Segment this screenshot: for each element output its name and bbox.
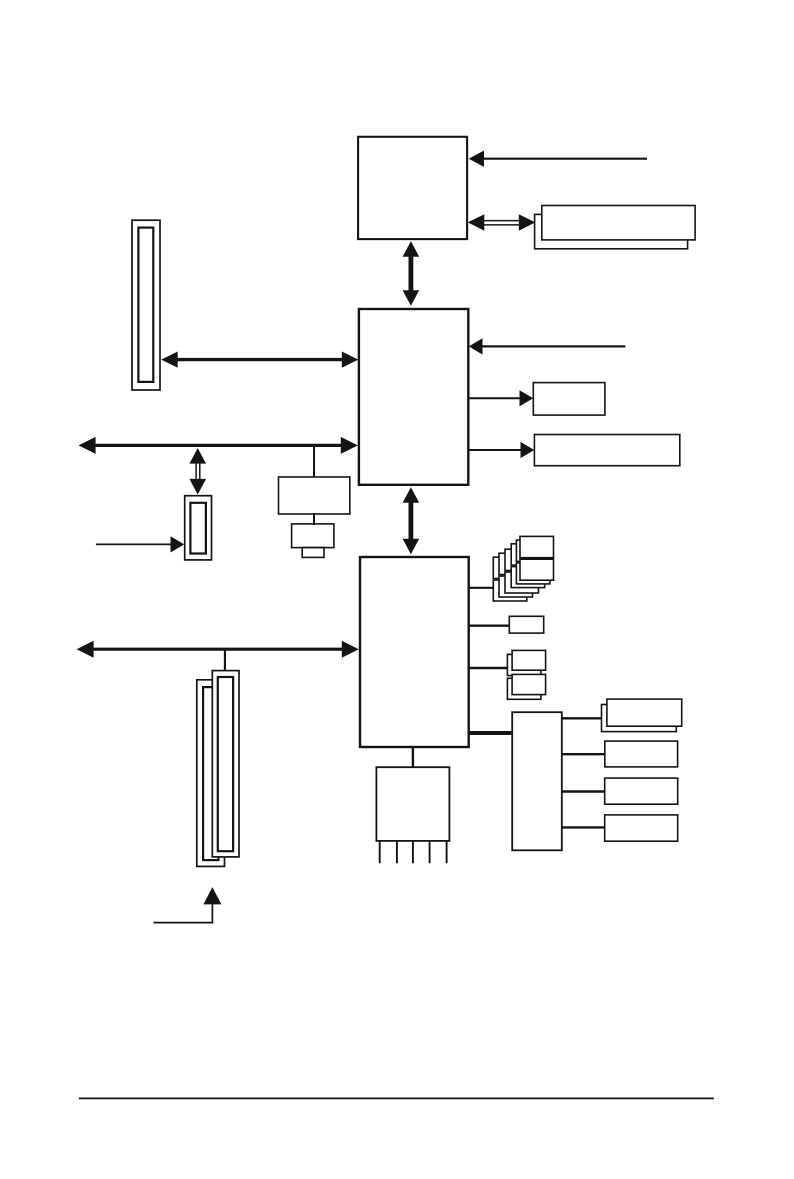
PCI slot front outer <box>212 671 239 857</box>
AGP slot connector inner <box>138 228 153 382</box>
wire: junction bus to clock generator <box>313 447 315 477</box>
arrowhead into CPU <box>469 151 484 167</box>
USB ports front upper box <box>520 536 554 557</box>
arrowhead right toward memory <box>519 214 536 231</box>
front panel connector outer <box>185 496 212 560</box>
parallel port box <box>605 741 678 767</box>
wire: thick vertical double arrow northbridge to southbridge <box>408 500 413 541</box>
crystal box <box>292 524 334 548</box>
arrowhead left toward CPU <box>468 214 485 231</box>
BIOS pin 2 <box>396 841 398 863</box>
AGP slot connector outer <box>132 220 160 390</box>
super I/O box U4 <box>512 712 562 850</box>
floppy box <box>605 778 678 804</box>
wire: southbridge to BIOS <box>412 747 414 767</box>
PCI slot front inner <box>218 677 233 851</box>
PS2 box <box>605 815 678 841</box>
wire: super I/O to PS2 <box>561 826 604 828</box>
IDE front upper box <box>512 650 546 670</box>
small box right of northbridge <box>533 383 605 416</box>
wire: L-shaped arrow pointing up to PCI slots <box>154 903 213 923</box>
crystal base box <box>302 548 324 558</box>
IDE front lower box <box>512 674 546 694</box>
USB ports pair layer 2 upper <box>511 544 545 565</box>
northbridge box U2 <box>359 309 468 485</box>
USB ports pair layer 4 upper <box>499 553 533 574</box>
wire: southbridge to IDE <box>469 667 508 669</box>
BIOS pin 5 <box>446 841 448 863</box>
wire: northbridge to wide box arrow <box>469 449 523 451</box>
wire: line into CPU right side <box>483 158 647 160</box>
wire: small double-line vertical arrow bus to front panel connector <box>195 462 197 481</box>
USB ports pair layer 3 upper <box>505 549 539 570</box>
clock generator box <box>279 477 350 514</box>
wide box right of northbridge <box>534 435 679 466</box>
wire: thick line southbridge to super I/O <box>469 731 513 735</box>
memory module front box <box>542 206 695 240</box>
LAN box <box>509 616 543 633</box>
CPU box U1 <box>358 137 467 239</box>
wire: thick vertical double arrow CPU to northbridge <box>408 254 413 294</box>
PCI slot back outer <box>197 680 225 867</box>
wire: double-line bus CPU to memory <box>483 220 520 222</box>
wire: long thick double arrow bus upper <box>94 444 342 447</box>
wire: thick double arrow AGP to northbridge <box>176 358 343 361</box>
USB ports pair layer 2 lower <box>511 567 545 588</box>
USB ports front lower box <box>520 559 554 580</box>
USB ports pair layer 4 lower <box>499 576 533 597</box>
USB ports pair layer 1 upper <box>516 540 550 561</box>
memory module shadow box <box>535 214 688 248</box>
wire: super I/O to serial port <box>561 717 601 719</box>
wire: southbridge to LAN box <box>469 625 510 627</box>
serial port shadow box <box>602 705 677 732</box>
IDE back pair lower box <box>507 678 541 699</box>
serial port front box <box>607 699 682 726</box>
wire: southbridge to USB ports <box>469 587 494 589</box>
BIOS pin 1 <box>379 841 381 863</box>
southbridge box U3 <box>360 557 469 747</box>
BIOS pin 4 <box>429 841 431 863</box>
arrowhead into northbridge <box>469 338 483 354</box>
wire: junction bus to PCI slots <box>224 650 226 671</box>
PCI slot back inner <box>203 687 218 860</box>
USB ports pair layer 5 upper <box>493 557 527 578</box>
wire: super I/O to parallel port <box>561 753 604 755</box>
BIOS pin 3 <box>412 841 414 863</box>
front panel connector inner <box>190 503 206 554</box>
USB ports pair layer 1 lower <box>516 563 550 584</box>
USB ports pair layer 5 lower <box>493 580 527 601</box>
wire: line into northbridge right side <box>482 345 626 347</box>
BIOS chip box <box>376 767 449 841</box>
wire: arrow into front panel connector <box>96 543 172 545</box>
USB ports pair layer 3 lower <box>505 572 539 593</box>
wire: clock generator to crystal <box>313 513 315 525</box>
footer rule <box>79 1097 714 1099</box>
wire: northbridge to small box arrow <box>469 397 522 399</box>
IDE back pair upper box <box>507 654 541 675</box>
wire: long thick double arrow bus lower <box>92 648 343 651</box>
wire: super I/O to floppy <box>561 790 604 792</box>
